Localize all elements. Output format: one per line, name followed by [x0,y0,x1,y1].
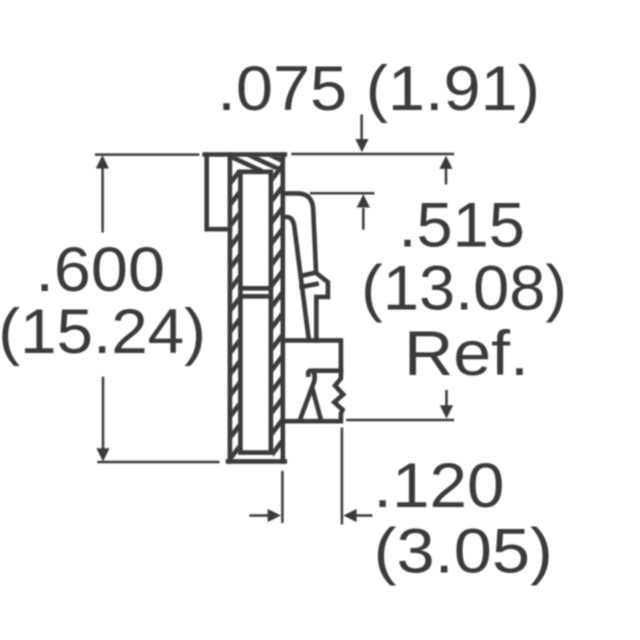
svg-text:.515: .515 [399,190,525,260]
svg-text:(13.08): (13.08) [361,254,567,324]
svg-text:.120: .120 [373,451,504,521]
svg-text:.600: .600 [35,235,165,305]
svg-text:(15.24): (15.24) [0,297,206,367]
svg-text:Ref.: Ref. [404,319,529,389]
svg-text:.075 (1.91): .075 (1.91) [217,54,540,124]
svg-text:(3.05): (3.05) [374,517,553,587]
